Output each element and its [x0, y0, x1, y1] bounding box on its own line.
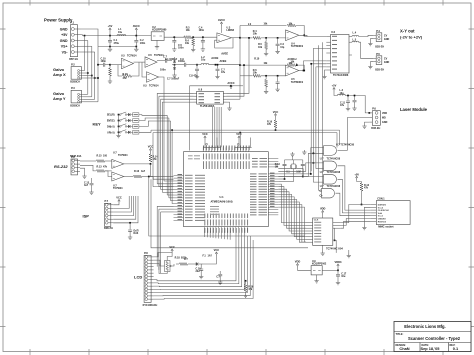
svg-text:(-2V to +2V): (-2V to +2V) — [400, 35, 423, 40]
svg-text:Vdd: Vdd — [378, 213, 383, 215]
svg-text:0.1: 0.1 — [453, 346, 459, 351]
svg-text:47k: 47k — [364, 187, 369, 190]
wire P.9 txd — [80, 160, 96, 162]
svg-text:+5V: +5V — [332, 84, 337, 88]
MCU bottom bus to right — [235, 231, 237, 240]
blanking line drop to MCU top pin — [239, 132, 241, 134]
wire galvo X out to U.6 in — [304, 36, 326, 38]
svg-text:AVEE: AVEE — [221, 52, 228, 56]
svg-text:R.13: R.13 — [97, 166, 103, 169]
svg-text:R.?: R.? — [184, 258, 188, 261]
svg-text:10u: 10u — [118, 31, 123, 34]
AND gate U.7 TC74VHC08 #4 — [322, 188, 335, 198]
connector P.8 LCD — [144, 255, 151, 302]
wire signal feedback vertical to input chain — [97, 47, 99, 102]
svg-text:CLK: CLK — [314, 219, 319, 221]
wire inverter2 output — [157, 60, 165, 62]
svg-text:Electronic Lions Mfg.: Electronic Lions Mfg. — [404, 324, 445, 329]
capacitor C.4 100n vref — [202, 36, 204, 38]
wire L.3 to laser connector — [345, 96, 369, 113]
svg-text:1A?: 1A? — [208, 254, 213, 257]
svg-text:C.7 1000uF: C.7 1000uF — [167, 79, 180, 81]
capacitor C.12 100n laser — [354, 96, 356, 101]
vertical supply feeder VS+ — [91, 46, 93, 97]
inductor L.3 laser filter — [334, 92, 338, 96]
AND gate U.7 TC74VHC08 #3 — [324, 175, 337, 185]
svg-text:AVCC: AVCC — [218, 18, 225, 22]
connector P.4 X out — [376, 33, 382, 42]
svg-text:B2B8CH: B2B8CH — [70, 81, 80, 84]
wire R.3 to vref node — [191, 36, 217, 38]
svg-text:L.4: L.4 — [353, 32, 357, 35]
svg-text:100n: 100n — [160, 69, 166, 72]
svg-text:MD: MD — [382, 117, 386, 120]
buffer U.10 TC74VHCU04 box — [313, 218, 333, 245]
svg-text:GND: GND — [384, 61, 390, 64]
svg-text:10k: 10k — [253, 33, 258, 36]
wire GND from P.1 pin1 — [81, 29, 99, 47]
power node AVCC arrow — [135, 28, 137, 32]
svg-text:CLK/SCLK: CLK/SCLK — [378, 210, 389, 212]
svg-text:U.5: U.5 — [143, 85, 147, 88]
svg-text:TC74VHC08: TC74VHC08 — [327, 185, 341, 188]
AND gate U.7 TC74VHC08 #2 — [324, 161, 337, 171]
crystal top rail — [285, 159, 303, 161]
svg-text:+5V: +5V — [108, 24, 113, 28]
svg-text:CMD/DI: CMD/DI — [378, 219, 386, 221]
svg-text:VCC: VCC — [273, 110, 279, 114]
wire inverter1 to inverter2 — [134, 61, 146, 63]
wire galvo Y amp output — [299, 70, 304, 72]
svg-text:U.5: U.5 — [148, 54, 152, 57]
svg-text:X-Y out: X-Y out — [400, 29, 415, 34]
connector P.5 Y out — [376, 56, 382, 65]
inductor L.4 output filter — [352, 35, 359, 36]
svg-text:100n: 100n — [140, 42, 146, 45]
svg-text:470u: 470u — [114, 42, 120, 45]
wire third inverter output to bundle — [159, 77, 174, 181]
svg-text:VCC: VCC — [169, 245, 175, 249]
schmitt inverter U.5 TC7W14 third — [147, 72, 159, 83]
svg-text:L.5: L.5 — [353, 39, 357, 42]
svg-text:VS-: VS- — [62, 50, 69, 54]
key common wire DN(+5) — [118, 126, 120, 128]
resistor R.13 47k rs232 rxd divider — [80, 165, 96, 171]
net label box key row UP(+5) — [133, 131, 139, 135]
crystal load cap C.14 — [284, 160, 286, 164]
svg-text:10u: 10u — [201, 59, 206, 62]
svg-text:TA75W01S: TA75W01S — [291, 45, 304, 48]
DAC ref wire — [227, 98, 241, 100]
junction dot U.10 right — [334, 239, 336, 241]
svg-text:16M: 16M — [296, 171, 301, 173]
wire +5V rail from P.1 pin2 — [81, 34, 152, 37]
svg-text:U.7: U.7 — [320, 185, 324, 188]
svg-text:22u: 22u — [196, 270, 201, 273]
resistor R.4 10k shunt — [192, 36, 194, 38]
gate unused input gnd — [302, 150, 306, 154]
wire L.5 to P.5 — [359, 42, 374, 58]
connector P.3 galvo amp Y — [71, 90, 81, 103]
key common ground — [116, 134, 120, 138]
gate4 output — [336, 193, 371, 216]
MCU bottom pin stubs — [204, 227, 206, 232]
svg-text:ENT(E): ENT(E) — [107, 121, 115, 123]
svg-text:R.18: R.18 — [175, 257, 181, 260]
MCU left pin numbers outside — [178, 174, 183, 175]
svg-text:TC7W04: TC7W04 — [118, 154, 128, 157]
svg-text:P.8: P.8 — [144, 251, 148, 255]
key diode row UP(+5) — [127, 131, 129, 133]
MCU top power flag circles — [206, 143, 208, 145]
capacitor C.13 4u7 rs232 — [91, 178, 93, 183]
wire to gate3 inputs — [278, 169, 323, 177]
svg-text:MMC socket: MMC socket — [378, 225, 393, 229]
VCC arrow backlight — [215, 252, 217, 256]
svg-text:C.?: C.? — [216, 277, 220, 279]
wire L.4 to P.4 — [359, 35, 374, 36]
wire U.2 out rail — [164, 36, 184, 38]
MCU top pin numbers tiny — [203, 146, 204, 151]
wires P.3 pins to supply feeders — [84, 93, 88, 95]
capacitor C.9 — [185, 63, 186, 67]
svg-text:R.15: R.15 — [97, 155, 103, 158]
VDD3 arrow U.9 out — [337, 264, 339, 268]
svg-text:DYC14BACH: DYC14BACH — [143, 304, 158, 307]
LCD data bundle to MCU bottom pins — [154, 240, 236, 281]
svg-text:R.18: R.18 — [123, 73, 129, 76]
gate4 inputs from long verticals — [319, 190, 321, 192]
inverter U.7 TC7W04 rx — [112, 159, 124, 168]
svg-text:100n: 100n — [101, 60, 107, 63]
ISP wires to bundle — [113, 204, 119, 205]
MCU bottom pin numbers tiny — [204, 228, 205, 233]
MCU left pin names inside — [185, 175, 193, 176]
long net wire second blanking line — [153, 132, 337, 134]
pullup R.19 47k on LCD line — [245, 280, 247, 282]
connector P.6 laser module — [372, 111, 380, 126]
reset cap C.14 — [129, 223, 131, 230]
svg-text:DN(+5): DN(+5) — [107, 126, 115, 128]
svg-text:10u: 10u — [340, 92, 345, 95]
DAC out A wire to galvo X input — [227, 38, 250, 93]
wire tx to MCU — [153, 177, 173, 180]
svg-text:VDD: VDD — [295, 260, 301, 264]
svg-text:ISP: ISP — [83, 214, 90, 219]
svg-text:TC74VHC08: TC74VHC08 — [327, 158, 341, 161]
svg-text:10k: 10k — [185, 42, 190, 45]
svg-text:4u7: 4u7 — [84, 184, 89, 187]
AND gate U.7 TC74VHC08 #1 — [324, 146, 337, 156]
MCU bottom port text block — [210, 206, 219, 207]
left control verticals to LCD — [156, 206, 158, 266]
pullup R.12 47k MMC DAT — [356, 176, 358, 180]
svg-text:ChaN: ChaN — [399, 346, 409, 351]
VCC arrow LCD — [171, 249, 173, 253]
svg-text:P.3: P.3 — [71, 86, 75, 90]
gate2 output — [338, 166, 371, 210]
svg-text:Vss1: Vss1 — [378, 216, 384, 218]
vertical supply feeder VS- — [94, 52, 96, 99]
wire DAC supply loop — [190, 86, 231, 151]
U.9 gnd pin — [316, 275, 318, 279]
shunt resistor R.5 10k top galvo — [265, 37, 267, 39]
wire P.1 pin5 VS- down — [81, 51, 95, 53]
op-amp U.3 feedback loop — [215, 38, 233, 48]
wire MMC DAT from U.10 — [341, 205, 371, 223]
reset pullup R.17 47k — [274, 114, 276, 118]
svg-text:LCD: LCD — [134, 275, 142, 280]
svg-text:10p: 10p — [280, 47, 285, 49]
long loop wire down from rs232 — [149, 177, 305, 237]
shunt resistor lower galvo — [265, 75, 267, 77]
feedback wire top galvo amp with R.7 — [240, 25, 287, 27]
gate1 output to laser MD — [338, 150, 348, 152]
key diode row DN(+5) — [127, 125, 129, 127]
svg-text:CV: CV — [384, 35, 388, 38]
wires P.2 pins to supply feeders — [84, 70, 85, 72]
wire P.1 pin3 down — [81, 40, 88, 42]
capacitor C.11 47u laser — [347, 96, 349, 101]
U.10 right stubs — [333, 222, 341, 224]
MCU bottom pin drop wires — [204, 231, 206, 237]
MCU top pin names inside tiny — [203, 154, 204, 160]
svg-text:Amp X: Amp X — [53, 72, 66, 77]
svg-text:AUXDrv:: AUXDrv: — [287, 58, 297, 61]
MCU right pin stubs — [268, 173, 278, 175]
feedback resistor R.18 47k — [118, 65, 122, 76]
crystal load cap C.15 — [302, 160, 304, 164]
power op-amp U.4 TA75W01 X driver — [286, 30, 299, 41]
regulator U.2 XC62FP2980 — [151, 32, 164, 41]
key common wire UP(+5) — [118, 131, 120, 133]
capacitor C.11 47u at AVEE — [217, 65, 219, 69]
vertical supply feeder GND — [87, 41, 89, 95]
VDD arrow U.9 in — [296, 264, 298, 268]
U.2 ground pin — [156, 40, 158, 44]
svg-text:100n: 100n — [178, 47, 184, 50]
svg-text:KEY: KEY — [93, 122, 102, 127]
+5V arrow laser supply — [333, 88, 335, 92]
vertical supply feeder +5V — [84, 36, 86, 71]
svg-text:ATMEGA64(-16AI): ATMEGA64(-16AI) — [210, 200, 232, 204]
ground P.5 — [370, 62, 373, 65]
wire U.9 out — [322, 269, 338, 271]
VCC arrow at ISP — [118, 200, 120, 204]
svg-text:AUXE: AUXE — [211, 56, 218, 60]
svg-text:B4B-EH: B4B-EH — [371, 127, 380, 130]
inductor L.1 10u — [117, 34, 126, 35]
DAC left pin wires to MCU bundle — [194, 92, 197, 94]
verticals DAC control to MCU top pins — [212, 107, 214, 147]
wire key row UP(+5) — [139, 130, 151, 132]
svg-text:C.1 1000uF: C.1 1000uF — [165, 59, 178, 61]
capacitor C.5 100n at U.2 out — [173, 36, 175, 38]
svg-text:+5V: +5V — [354, 172, 359, 176]
tiny pin names U.6 — [332, 36, 337, 37]
svg-text:GND: GND — [384, 38, 390, 41]
key diode row SEL(R) — [127, 114, 129, 116]
svg-text:CON.1: CON.1 — [377, 198, 385, 201]
ground below C.2 — [134, 47, 138, 51]
capacitor C.1 470u — [109, 35, 111, 37]
crystal wires to MCU XTAL pins — [278, 176, 303, 178]
regulator U.9 XC62FP3002 box — [311, 266, 322, 275]
svg-text:TC7W04: TC7W04 — [113, 187, 123, 190]
svg-text:TA75W01S: TA75W01S — [291, 81, 304, 84]
svg-text:4u7: 4u7 — [141, 170, 146, 173]
svg-text:47k: 47k — [123, 77, 128, 80]
svg-text:RSV/CS: RSV/CS — [378, 221, 387, 223]
U.6 control verticals from MCU — [311, 64, 326, 172]
wire MMC CMD from U.10 — [341, 219, 371, 226]
svg-text:U.7: U.7 — [320, 158, 324, 161]
svg-text:B6B-PH: B6B-PH — [104, 227, 113, 230]
pullup R.14 47k rs232 — [149, 154, 152, 162]
svg-text:+5V: +5V — [61, 33, 68, 37]
schmitt inverter U.5 TC7W14 second — [145, 57, 157, 68]
svg-text:47u: 47u — [340, 104, 345, 107]
ground below C.1 — [108, 47, 112, 51]
key diode row ENT(E) — [127, 120, 129, 122]
svg-text:P.2: P.2 — [71, 62, 75, 66]
wire U.3 output to vref rail — [232, 37, 241, 39]
svg-text:R.16: R.16 — [134, 170, 140, 173]
gate3 output — [338, 179, 371, 213]
svg-text:TC7W14: TC7W14 — [149, 85, 159, 88]
svg-text:100n: 100n — [199, 29, 205, 32]
svg-text:GND: GND — [60, 27, 68, 31]
wire MMC Vss2 — [364, 207, 370, 225]
svg-text:VCC: VCC — [214, 248, 220, 252]
svg-text:DAT/DO: DAT/DO — [378, 204, 387, 207]
backlight diode — [196, 262, 198, 265]
wire tx inverter out with R.16 — [124, 176, 133, 178]
wire MCU pin to gate1 top input — [278, 148, 323, 174]
MMC socket CON.1 — [376, 201, 410, 225]
AVCC arrow above U.3 — [220, 22, 222, 26]
wire rx to MCU — [151, 164, 174, 177]
resistor R.3 10k series — [184, 36, 192, 39]
cap lower galvo — [277, 75, 279, 77]
connector P.7 ISP — [105, 203, 111, 226]
svg-text:CV: CV — [384, 58, 388, 61]
wire MMC CS — [341, 221, 371, 228]
wire L.2 to AVEE node — [209, 64, 240, 66]
connector P.1 power supply — [70, 25, 77, 57]
wire inverter rx out — [124, 163, 151, 165]
input bias resistor R.9 470k — [109, 65, 111, 68]
svg-text:VCC: VCC — [116, 196, 122, 200]
capacitor C.17 10u at U.9 out — [337, 270, 339, 274]
capacitor C.20 — [219, 271, 221, 274]
MCU right pin names inside — [250, 173, 257, 174]
DAC U.8 TLV5614 box — [197, 91, 224, 104]
svg-text:DnS: DnS — [134, 232, 139, 235]
inductor L.2 10u — [186, 64, 201, 66]
wire to gate2 inputs — [278, 163, 323, 171]
svg-text:U.5: U.5 — [121, 55, 125, 58]
wire P.1 pin4 VS+ down — [81, 45, 92, 47]
wire key row ENT(E) — [139, 118, 169, 121]
key common wire ENT(E) — [118, 120, 120, 122]
capacitor C.19 backlight — [200, 264, 202, 269]
svg-text:1M: 1M — [275, 165, 278, 168]
inverter U.7 TC7W04 tx — [105, 170, 112, 172]
svg-text:VDD: VDD — [382, 112, 387, 115]
svg-text:U.7: U.7 — [113, 152, 117, 155]
svg-text:TC74AC4066: TC74AC4066 — [333, 74, 349, 77]
U.6 ground — [325, 70, 327, 75]
MCU top supply rail — [203, 146, 220, 148]
MCU left pin stubs — [174, 174, 184, 176]
DAC agnd — [227, 102, 230, 106]
wire galvo X amp output — [299, 35, 307, 36]
svg-text:47k: 47k — [103, 166, 108, 169]
svg-text:UP(+5): UP(+5) — [107, 132, 115, 134]
svg-text:10u: 10u — [341, 275, 346, 278]
key row4 branch to MCU — [172, 130, 173, 203]
svg-text:1000u: 1000u — [178, 60, 185, 63]
long vertical control net to gate4 B — [322, 42, 324, 196]
svg-text:AVCC: AVCC — [227, 81, 234, 85]
svg-text:U.7: U.7 — [320, 171, 324, 174]
svg-text:Sep 18,'05: Sep 18,'05 — [421, 346, 441, 351]
cap C.6 top galvo — [277, 37, 279, 39]
DAC right pins — [223, 92, 226, 94]
feedback wire lower galvo amp — [240, 64, 287, 66]
U.6 control vertical B — [316, 67, 326, 169]
op-amp U.3 LM358 vref buffer — [217, 33, 232, 43]
gnd stub right of U.10 — [347, 254, 351, 258]
wire to third inverter — [142, 62, 147, 77]
svg-text:10k: 10k — [253, 72, 258, 75]
svg-text:10k: 10k — [186, 29, 191, 32]
wire key row DN(+5) — [139, 121, 171, 126]
key common vertical — [118, 115, 120, 134]
net label box key row SEL(R) — [133, 113, 139, 117]
wire laser MD from gates — [347, 117, 369, 119]
connector P.9 RS-232 — [71, 159, 78, 175]
capacitor C.8 47u to gnd — [196, 65, 198, 69]
svg-text:SEL(R): SEL(R) — [107, 115, 115, 117]
svg-text:47u: 47u — [221, 71, 226, 74]
wire into first inverter — [110, 64, 122, 66]
svg-text:47k: 47k — [267, 123, 272, 126]
svg-text:P.6: P.6 — [372, 107, 376, 111]
wire clamp to cap C.9 — [172, 64, 184, 66]
title block — [394, 322, 471, 352]
long net wire key row4 to gates — [151, 129, 340, 131]
U.10 pin names tiny — [314, 222, 321, 223]
svg-text:P.1: P.1 — [70, 21, 74, 25]
svg-text:AVCC: AVCC — [133, 24, 140, 28]
net label box key row DN(+5) — [133, 125, 139, 129]
svg-text:B2B8CH: B2B8CH — [70, 104, 80, 107]
svg-text:TC74VHC U04: TC74VHC U04 — [326, 247, 343, 250]
connector P.2 galvo amp X — [71, 67, 81, 80]
MCU bottom pin names inside tiny — [204, 214, 205, 219]
svg-text:TC7W14: TC7W14 — [127, 55, 137, 58]
svg-text:TB4P-03A: TB4P-03A — [70, 155, 82, 158]
MCU top pin stubs — [202, 147, 204, 151]
ground P.6 — [365, 122, 370, 124]
svg-text:AVEE: AVEE — [220, 59, 227, 63]
svg-text:RS-232: RS-232 — [54, 164, 68, 169]
svg-text:47k: 47k — [248, 288, 253, 291]
long vertical control net to gate4 A — [318, 45, 320, 190]
wire key row SEL(R) — [139, 114, 167, 117]
